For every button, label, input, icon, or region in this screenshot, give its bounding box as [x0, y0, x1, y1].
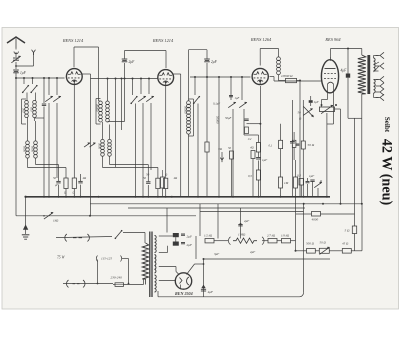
svg-text:1μF: 1μF: [235, 96, 240, 100]
grid-leak network: [204, 234, 264, 245]
coil value label L2b: [31, 146, 35, 153]
svg-text:μF: μF: [55, 184, 58, 187]
potentiometer P3 50: [315, 247, 342, 254]
resistor R17 box: [267, 234, 277, 243]
capacitor C21 4μF ground: [201, 285, 214, 294]
coil L3 anode choke: [99, 47, 101, 101]
svg-text:1/2 kΩ: 1/2 kΩ: [204, 234, 213, 238]
svg-text:2μF: 2μF: [244, 219, 249, 223]
transformer T1 core: [367, 55, 370, 94]
label 230-240: [111, 276, 123, 280]
wire x300 drop: [299, 81, 301, 197]
svg-text:2μF: 2μF: [187, 243, 193, 247]
svg-text:4000: 4000: [312, 218, 319, 222]
variable capacitor antenna trimmer: [11, 52, 20, 69]
wire rail3: [128, 207, 305, 209]
potentiometer P1: [320, 104, 341, 114]
resistor R6 50: [301, 100, 314, 197]
capacitor C25 1uF: [229, 96, 240, 101]
variable resistor pair: [298, 107, 314, 121]
label tube V4 RES 164: [324, 37, 341, 42]
potentiometer P2: [43, 212, 59, 222]
speaker forks B: [376, 76, 384, 100]
wire V3 to V4: [270, 77, 322, 82]
coil L4 pair: [96, 78, 125, 125]
capacitor C6 2μF: [122, 51, 135, 79]
svg-text:1/9 kΩ: 1/9 kΩ: [281, 234, 290, 238]
svg-text:45 Ω: 45 Ω: [342, 242, 349, 246]
wire bottom loop: [158, 204, 330, 297]
capacitor C11 2μF: [189, 50, 218, 77]
transformer T2 secondary w3: [155, 275, 157, 292]
svg-text:6000: 6000: [23, 146, 27, 153]
tube V2: [158, 70, 174, 86]
wire x218 col: [217, 204, 219, 239]
coil value label L2a: [23, 146, 27, 153]
svg-text:00000: 00000: [96, 104, 100, 112]
svg-text:75 W: 75 W: [57, 256, 65, 260]
coil value label L4: [96, 104, 100, 112]
wire V2 anode top: [173, 50, 193, 197]
svg-text:1μF: 1μF: [20, 71, 27, 75]
wire V5 heater: [159, 280, 176, 282]
transformer T2 secondary w1: [155, 236, 157, 253]
svg-text:50000: 50000: [216, 116, 220, 124]
wire tap junction: [97, 259, 130, 285]
resistor R4a box: [156, 168, 160, 197]
variable capacitor C7: [138, 79, 146, 197]
svg-text:115-125: 115-125: [101, 257, 112, 261]
resistor R2 box: [72, 84, 76, 196]
connector plug1: [65, 234, 90, 241]
wire x340 drop: [340, 109, 342, 204]
wire V2 grid top: [125, 51, 167, 69]
resistor R4b box: [164, 85, 168, 196]
coil value label L1b: [30, 107, 34, 112]
svg-text:1μF: 1μF: [309, 174, 314, 178]
transformer T1 primary: [358, 49, 366, 204]
resistor R1 box: [64, 168, 68, 197]
coil value label L1a: [22, 108, 26, 113]
svg-text:3μF: 3μF: [214, 252, 219, 256]
label cluster2b: [143, 176, 178, 180]
fuse F1: [113, 279, 144, 286]
svg-text:Ω: Ω: [73, 192, 75, 195]
earth jack fork: [15, 50, 35, 67]
capacitor C15: [290, 100, 295, 197]
capacitor C22 2μF: [238, 219, 249, 226]
svg-text:10000 Ω: 10000 Ω: [281, 74, 293, 78]
connector plug2: [67, 280, 85, 287]
svg-text:Seibt: Seibt: [383, 117, 391, 133]
wire x296 drop: [295, 197, 297, 252]
coil L2 pair: [26, 118, 66, 168]
variable resistor R11: [314, 179, 323, 197]
resistor R8a box: [213, 102, 261, 158]
switch S2: [130, 79, 137, 197]
resistor R18 box: [277, 234, 296, 243]
coil L5 pair: [101, 122, 158, 168]
wire V5 anode A: [159, 267, 179, 275]
wire rail2: [90, 203, 363, 205]
svg-text:5 Ω: 5 Ω: [345, 229, 351, 233]
wire grid bus stage2: [91, 78, 158, 80]
label 115-125 tap: [96, 256, 128, 262]
label tube V2 RENS 1214: [152, 38, 174, 43]
capacitor C23 1uF: [309, 96, 319, 106]
svg-text:50: 50: [228, 146, 232, 150]
wire rail5 short: [200, 211, 304, 213]
transformer T1 secondary B: [374, 80, 379, 98]
tube V5 rectifier: [175, 273, 191, 289]
wire V3 top to choke: [260, 49, 278, 66]
wire drop x44: [42, 78, 46, 197]
capacitor C19 2μF: [159, 233, 193, 239]
transformer T2 core: [150, 232, 152, 298]
svg-text:RENS 1214: RENS 1214: [62, 38, 84, 43]
resistor R16 1M zigzag: [233, 233, 257, 244]
wire left col x200: [195, 236, 197, 259]
switch S3: [193, 77, 200, 197]
svg-text:2μF: 2μF: [250, 250, 255, 254]
svg-text:4μF: 4μF: [341, 69, 348, 73]
resistor R13 5ohm: [345, 118, 357, 251]
resistor R7: [297, 174, 304, 197]
tube V4 output: [321, 57, 338, 93]
svg-text:00000: 00000: [184, 106, 188, 114]
variable capacitor C12: [228, 77, 236, 197]
svg-text:50 Ω: 50 Ω: [308, 143, 315, 147]
ground: [22, 197, 30, 239]
resistor R12 4000: [296, 212, 355, 222]
transformer T1 secondary A: [374, 56, 379, 72]
svg-text:7Ω: 7Ω: [218, 147, 223, 151]
tube V3: [252, 68, 268, 84]
svg-text:1 MΩ: 1 MΩ: [238, 233, 246, 237]
capacitor C5: [78, 174, 82, 197]
wire drop x116: [116, 79, 122, 168]
transformer T2 secondary w2: [155, 255, 156, 274]
speaker forks A: [374, 52, 385, 72]
wire V4 cathode pot: [322, 93, 334, 107]
wire V4 anode top: [331, 48, 362, 58]
label cluster2: [146, 173, 168, 177]
svg-text:42 W (neu): 42 W (neu): [378, 139, 394, 206]
svg-text:50: 50: [143, 176, 147, 180]
svg-text:Ω: Ω: [64, 192, 66, 195]
resistor R9 box: [279, 160, 289, 197]
svg-text:230-240: 230-240: [111, 276, 123, 280]
wire drop x219: [219, 77, 232, 197]
capacitor C24: [244, 119, 249, 134]
capacitor C16: [309, 174, 315, 197]
resistor R20 box: [292, 132, 299, 160]
resistor R5 10000: [279, 74, 302, 83]
coil L6 HF choke: [277, 49, 281, 81]
label cluster1: [53, 176, 87, 195]
coil L1 pair: [22, 99, 45, 124]
wire x200 col: [199, 204, 201, 236]
svg-text:RES 964: RES 964: [324, 37, 341, 42]
value label 50000: [216, 116, 220, 124]
wire right corner: [361, 204, 363, 251]
wire mains line2: [63, 283, 113, 285]
svg-text:500 Ω: 500 Ω: [306, 242, 315, 246]
transformer T2 primary: [142, 243, 148, 285]
svg-text:6000: 6000: [31, 146, 35, 153]
title Seibt: [383, 117, 391, 133]
wire x333 drop: [327, 100, 334, 197]
svg-text:RENS 1214: RENS 1214: [152, 38, 174, 43]
svg-text:1/2: 1/2: [248, 137, 252, 141]
label tube V1 RENS 1214: [62, 38, 84, 43]
wire V3 cathode: [250, 86, 262, 197]
wire grid bus stage1: [15, 77, 65, 79]
coil value label L5: [98, 143, 102, 150]
svg-text:REN 2504: REN 2504: [175, 291, 193, 296]
resistor R21 box: [205, 77, 209, 197]
wire grid bus stage3: [190, 76, 251, 78]
variable capacitor C13: [239, 77, 258, 143]
capacitor C9a: [146, 165, 150, 197]
wire left drop x16: [15, 78, 17, 216]
resistor R8 box: [248, 170, 261, 197]
wire main HT bus: [24, 196, 330, 198]
resistor R15 45: [342, 249, 362, 254]
resistor R14 500: [296, 249, 315, 254]
svg-text:2μF: 2μF: [211, 60, 218, 64]
title 42 W neu: [378, 139, 394, 206]
label 75W: [57, 256, 65, 260]
trimmer arrows mid: [84, 143, 95, 147]
svg-text:50: 50: [53, 176, 57, 180]
variable capacitor tuning C2: [45, 78, 53, 197]
label 3uF: [214, 250, 255, 256]
svg-text:50μF: 50μF: [225, 116, 232, 120]
svg-text:0000: 0000: [98, 143, 102, 150]
label tube V3 RENS 1264: [250, 37, 272, 42]
svg-text:1M: 1M: [284, 181, 289, 185]
svg-text:RENS 1264: RENS 1264: [250, 37, 272, 42]
svg-text:4μF: 4μF: [208, 290, 214, 294]
wire x167 drop: [166, 208, 168, 233]
resistor R19 box: [269, 124, 283, 160]
svg-text:50: 50: [146, 173, 150, 177]
svg-text:1μF: 1μF: [262, 158, 267, 162]
switch S4 mains: [115, 230, 145, 243]
resistor chain labels: [306, 241, 349, 246]
net cluster top: [218, 146, 255, 197]
resistor R4 box: [161, 170, 165, 197]
switch S1b: [30, 78, 37, 101]
variable capacitor C8: [146, 79, 154, 171]
label V5 REN 2504: [175, 291, 193, 296]
svg-text:2μF: 2μF: [129, 60, 136, 64]
resistor R10 box: [294, 160, 298, 197]
tube V1: [66, 69, 82, 85]
wire V5 anode B: [187, 263, 205, 274]
coil value label L7: [184, 106, 188, 114]
switch S1a: [22, 78, 29, 101]
wire V1 anode to top rail: [74, 47, 99, 67]
svg-text:2/7 kΩ: 2/7 kΩ: [267, 234, 276, 238]
svg-text:50: 50: [298, 111, 302, 115]
svg-text:1kΩ: 1kΩ: [53, 219, 59, 223]
antenna: [7, 37, 25, 54]
wire x240 col: [240, 208, 242, 239]
capacitor C17 1μF: [256, 158, 267, 171]
capacitor C14 4μF: [341, 49, 362, 119]
svg-text:850: 850: [30, 107, 34, 112]
variable capacitor trimmer C3: [53, 78, 61, 178]
capacitor C1 1μF: [13, 70, 26, 78]
svg-text:2μF: 2μF: [187, 235, 193, 239]
capacitor C4a: [56, 165, 60, 197]
wire rail4 left: [16, 215, 196, 217]
svg-text:300: 300: [22, 108, 26, 113]
svg-text:50 Ω: 50 Ω: [320, 241, 327, 245]
wire chain mid: [214, 240, 268, 242]
capacitor C20 2μF: [159, 237, 193, 252]
wire mains line1: [56, 237, 112, 238]
svg-text:1μF: 1μF: [314, 100, 319, 104]
wire rail2 left corner: [82, 74, 91, 216]
capacitor C18: [306, 178, 310, 197]
wire drop x124 low: [124, 79, 126, 122]
